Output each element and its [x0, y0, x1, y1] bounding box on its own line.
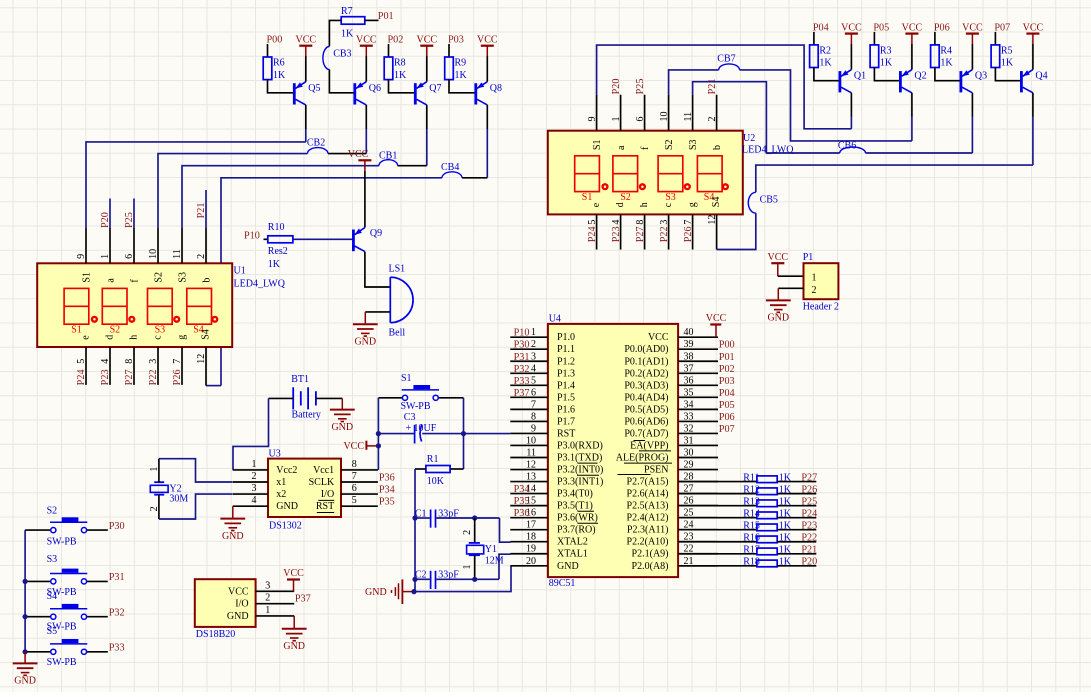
svg-text:31: 31: [684, 435, 694, 446]
svg-text:P26: P26: [683, 226, 694, 242]
svg-text:VCC: VCC: [841, 22, 862, 33]
svg-text:Q6: Q6: [369, 83, 381, 94]
svg-text:PSEN: PSEN: [644, 465, 668, 476]
wire Q8 collector: [486, 105, 488, 129]
wire R14 to net P24: [777, 517, 816, 519]
svg-text:7: 7: [531, 399, 536, 410]
svg-text:VCC: VCC: [768, 252, 789, 263]
resistor R2 1K: [810, 45, 819, 68]
transistor Q9: [352, 230, 355, 252]
svg-text:P0.3(AD3): P0.3(AD3): [624, 380, 668, 391]
svg-text:5: 5: [76, 359, 87, 364]
svg-text:S2: S2: [153, 272, 164, 283]
U2 top pin 2 (b): [716, 95, 718, 131]
svg-text:P31: P31: [514, 352, 530, 363]
U4 pin 39 P0.0(AD0): [678, 348, 718, 350]
svg-text:R3: R3: [880, 46, 892, 57]
U4 pin 32 P0.7(AD7): [678, 432, 718, 434]
svg-text:x2: x2: [276, 489, 286, 500]
svg-text:P25: P25: [635, 79, 646, 95]
svg-text:Battery: Battery: [292, 410, 321, 421]
wire R16 to net P22: [777, 541, 816, 543]
svg-text:P32: P32: [514, 364, 530, 375]
wire common ground column: [24, 530, 26, 652]
resistor R3 1K: [870, 45, 879, 68]
svg-text:1: 1: [100, 254, 111, 259]
svg-text:XTAL1: XTAL1: [557, 549, 588, 560]
U2 bottom pin 5 (e): [596, 214, 598, 249]
svg-text:S1: S1: [71, 325, 82, 336]
wire U4 pin 21 to R18: [678, 565, 757, 567]
svg-text:7: 7: [172, 359, 183, 364]
svg-text:P1: P1: [803, 252, 814, 263]
svg-text:a: a: [105, 278, 116, 283]
wire S1 right riser: [463, 398, 465, 469]
svg-text:P36: P36: [379, 472, 395, 483]
wire Q7 collector: [426, 105, 428, 129]
svg-text:P24: P24: [801, 508, 817, 519]
svg-text:P2.3(A11): P2.3(A11): [627, 525, 669, 536]
wire U4 pin 23 to R16: [678, 541, 757, 543]
wire row4 riser to CB4: [221, 178, 442, 386]
svg-text:29: 29: [684, 460, 694, 471]
svg-text:P3.7(RO): P3.7(RO): [557, 525, 596, 536]
U3 RST underline: [317, 512, 334, 514]
svg-text:e: e: [591, 202, 602, 207]
wire CB4 to Q8: [462, 177, 487, 179]
svg-text:P3.1(TXD): P3.1(TXD): [557, 453, 602, 464]
U4 pin 18 XTAL2: [510, 541, 548, 543]
U2 top pin 10 (S2): [668, 95, 670, 131]
wire R3 to Q2 base: [874, 68, 899, 81]
svg-text:7: 7: [683, 220, 694, 225]
svg-text:VCC: VCC: [706, 313, 727, 324]
U4 pin 27 P2.6(A14): [678, 493, 718, 495]
U2 top pin 6 (f): [644, 95, 646, 131]
svg-text:P03: P03: [448, 35, 464, 46]
U3 right pin 6 I/O: [341, 493, 378, 495]
svg-text:9: 9: [531, 423, 536, 434]
svg-text:Q8: Q8: [490, 83, 502, 94]
svg-text:P26: P26: [801, 484, 817, 495]
U2 bottom pin 4 (d): [620, 214, 622, 249]
svg-text:18: 18: [526, 532, 536, 543]
U1 bottom pin 12 (S4): [205, 347, 207, 386]
U4 active-low marks: [578, 462, 598, 464]
svg-text:P21: P21: [801, 545, 817, 556]
wire VCC to Q3 emitter: [971, 44, 973, 70]
svg-text:P25: P25: [124, 212, 135, 228]
svg-text:3: 3: [252, 483, 257, 494]
svg-text:11: 11: [683, 112, 694, 122]
ground GND at switch column: [24, 652, 26, 663]
wire Q4 collector down: [1032, 93, 1034, 117]
wire Q3 collector down: [971, 93, 973, 117]
svg-text:S4: S4: [47, 591, 58, 602]
junction dots on switch column: [23, 579, 28, 584]
svg-text:P1.2: P1.2: [557, 356, 575, 367]
svg-text:P06: P06: [719, 412, 735, 423]
svg-text:CB5: CB5: [760, 194, 778, 205]
svg-text:1: 1: [462, 565, 473, 570]
svg-text:a: a: [616, 145, 627, 150]
svg-text:S2: S2: [620, 192, 631, 203]
svg-text:8: 8: [124, 359, 135, 364]
svg-text:P26: P26: [172, 369, 183, 385]
svg-text:Header 2: Header 2: [803, 301, 839, 312]
wire U4 pin 22 to R17: [678, 553, 757, 555]
svg-text:Q7: Q7: [429, 83, 441, 94]
transistor Q6: [353, 83, 356, 104]
resistor R8 1K: [384, 57, 393, 80]
svg-text:P2.4(A12): P2.4(A12): [627, 513, 669, 524]
svg-text:39: 39: [684, 339, 694, 350]
U4 pin 40 VCC: [678, 336, 718, 338]
svg-text:P1.5: P1.5: [557, 392, 575, 403]
wire VCC to Q7 emitter: [426, 56, 428, 82]
svg-text:S2: S2: [664, 139, 675, 150]
svg-text:30: 30: [684, 448, 694, 459]
ground GND at U3 pin4: [232, 506, 234, 518]
svg-text:Vcc2: Vcc2: [276, 465, 297, 476]
svg-text:P07: P07: [719, 424, 735, 435]
svg-text:9: 9: [76, 254, 87, 259]
wire U4 pin 28 to R11: [678, 481, 757, 483]
U2 top pin 9 (S1): [596, 95, 598, 131]
svg-text:P35: P35: [514, 496, 530, 507]
svg-text:g: g: [176, 335, 187, 340]
svg-text:GND: GND: [331, 422, 353, 433]
wire ground row to U4 GND pin: [414, 566, 511, 592]
svg-text:DS18B20: DS18B20: [196, 629, 235, 640]
svg-text:P32: P32: [109, 608, 125, 619]
svg-text:S3: S3: [177, 272, 188, 283]
svg-text:ALE(PROG): ALE(PROG): [616, 453, 669, 464]
U4 pin 14 P3.4(T0): [510, 493, 548, 495]
svg-text:Q5: Q5: [308, 83, 320, 94]
svg-text:P34: P34: [379, 485, 395, 496]
svg-text:P1.7: P1.7: [557, 416, 575, 427]
U4 pin 11 P3.1(TXD): [510, 457, 548, 459]
svg-text:2: 2: [707, 117, 718, 122]
svg-text:Y1: Y1: [485, 544, 497, 555]
svg-text:Bell: Bell: [389, 328, 406, 339]
U1 top pin 2 (b): [205, 227, 207, 263]
wire C1 row: [415, 517, 430, 519]
svg-text:VCC: VCC: [283, 568, 304, 579]
svg-text:P23: P23: [611, 226, 622, 242]
svg-text:P22: P22: [801, 533, 817, 544]
svg-text:SCLK: SCLK: [309, 477, 335, 488]
U4 pin 17 P3.7(RO): [510, 529, 548, 531]
svg-text:13: 13: [526, 472, 536, 483]
wire VCC to Q9 emitter: [364, 171, 366, 228]
svg-text:P30: P30: [514, 340, 530, 351]
transistor Q2: [899, 71, 902, 92]
Y2 pin 2 wire to U3 x2: [158, 495, 160, 519]
U1 top pin 10 (S2): [157, 227, 159, 263]
svg-text:DS1302: DS1302: [269, 521, 302, 532]
svg-text:4: 4: [252, 495, 257, 506]
U4 pin 13 P3.3(INT1): [510, 481, 548, 483]
svg-text:GND: GND: [222, 531, 244, 542]
svg-text:P37: P37: [514, 388, 530, 399]
U1 top pin 1 (a): [109, 227, 111, 263]
wire S1 left riser: [377, 398, 379, 470]
wire R6 to Q5 base: [268, 80, 294, 93]
svg-text:5: 5: [352, 495, 357, 506]
U4 pin 3 P1.2: [510, 360, 548, 362]
U4 pin 10 P3.0(RXD): [510, 444, 548, 446]
svg-text:VCC: VCC: [348, 149, 369, 160]
svg-text:P04: P04: [813, 23, 829, 34]
wire R7 left down to CB3: [329, 20, 341, 46]
U1 bottom pin 3 (c): [157, 347, 159, 385]
svg-text:1K: 1K: [940, 58, 953, 69]
U4 pin 19 XTAL1: [510, 553, 548, 555]
svg-text:2: 2: [531, 339, 536, 350]
wire U2 pin11 to CB6 row: [693, 82, 840, 153]
svg-text:P0.7(AD7): P0.7(AD7): [624, 428, 668, 439]
wire VCC to Q8 emitter: [486, 56, 488, 82]
svg-text:RST: RST: [316, 501, 334, 512]
crystal Y1 12M: [474, 518, 476, 543]
svg-text:P2.5(A13): P2.5(A13): [627, 501, 669, 512]
ground GND at DS18B20: [293, 616, 295, 628]
wire CB1 to Q7: [398, 165, 427, 167]
svg-text:GND: GND: [365, 587, 387, 598]
svg-text:Vcc1: Vcc1: [313, 465, 334, 476]
svg-text:89C51: 89C51: [549, 578, 576, 589]
svg-text:CB6: CB6: [838, 140, 856, 151]
U1 top pin 11 (S3): [181, 227, 183, 263]
wire CB3 to Q6 base: [329, 70, 353, 93]
svg-text:3: 3: [531, 351, 536, 362]
svg-text:d: d: [104, 335, 115, 340]
svg-text:R4: R4: [940, 46, 952, 57]
svg-text:GND: GND: [276, 501, 298, 512]
svg-text:10UF: 10UF: [414, 423, 437, 434]
svg-text:P00: P00: [267, 35, 283, 46]
wire R2 to Q1 base: [814, 68, 839, 81]
svg-text:35: 35: [684, 387, 694, 398]
svg-text:1K: 1K: [819, 58, 832, 69]
wire VCC to Q2 emitter: [911, 44, 913, 70]
wire R13 to net P25: [777, 505, 816, 507]
wire row2 U1 pin10 to CB2: [158, 154, 307, 228]
svg-text:GND: GND: [227, 611, 249, 622]
svg-text:P0.0(AD0): P0.0(AD0): [624, 344, 668, 355]
svg-text:33: 33: [684, 411, 694, 422]
U4 pin 22 P2.1(A9): [678, 553, 718, 555]
svg-text:R8: R8: [394, 58, 406, 69]
wire CB2 to Q6: [328, 153, 366, 155]
svg-text:19: 19: [526, 544, 536, 555]
svg-text:S3: S3: [665, 192, 676, 203]
svg-text:R10: R10: [268, 222, 285, 233]
wire U1 pin12 to row4 riser: [206, 385, 221, 387]
svg-text:5: 5: [587, 220, 598, 225]
svg-text:P0.6(AD6): P0.6(AD6): [624, 416, 668, 427]
svg-text:1: 1: [611, 117, 622, 122]
U2 bottom pin 7 (g): [692, 214, 694, 249]
svg-text:VCC: VCC: [356, 35, 377, 46]
svg-text:P30: P30: [109, 521, 125, 532]
wire battery to U3 pin1: [269, 397, 294, 399]
svg-text:P10: P10: [244, 231, 260, 242]
wire R18 to net P20: [777, 565, 816, 567]
svg-text:P02: P02: [388, 35, 404, 46]
svg-text:P3.4(T0): P3.4(T0): [557, 489, 593, 500]
jumper CB5: [748, 192, 756, 213]
svg-text:SW-PB: SW-PB: [47, 536, 77, 547]
svg-text:S3: S3: [155, 325, 166, 336]
transistor Q8: [474, 83, 477, 104]
svg-text:P06: P06: [934, 23, 950, 34]
svg-text:40: 40: [684, 327, 694, 338]
transistor Q1: [839, 71, 842, 92]
svg-text:e: e: [80, 335, 91, 340]
svg-text:P03: P03: [719, 376, 735, 387]
svg-text:GND: GND: [14, 676, 36, 687]
svg-text:P24: P24: [587, 226, 598, 242]
U4 pin 30 ALE(PROG): [678, 457, 718, 459]
svg-text:b: b: [712, 145, 723, 150]
svg-text:S1: S1: [81, 272, 92, 283]
svg-text:Q1: Q1: [854, 71, 866, 82]
svg-text:20: 20: [526, 556, 536, 567]
svg-text:30M: 30M: [169, 494, 188, 505]
svg-text:U1: U1: [234, 266, 246, 277]
U4 pin 29 PSEN: [678, 469, 718, 471]
svg-text:P1.6: P1.6: [557, 404, 575, 415]
svg-text:5: 5: [531, 375, 536, 386]
U4 pin 31 EA(VPP): [678, 444, 718, 446]
svg-text:h: h: [639, 202, 650, 207]
jumper CB2: [307, 148, 328, 154]
U4 pin 24 P2.3(A11): [678, 529, 718, 531]
wire C2 row to XTAL1: [499, 554, 511, 579]
svg-text:7: 7: [352, 471, 357, 482]
svg-text:S1: S1: [582, 192, 593, 203]
U1 bottom pin 4 (d): [109, 347, 111, 385]
U1 top pin 6 (f): [133, 227, 135, 263]
svg-text:P23: P23: [801, 521, 817, 532]
U2 top pin 11 (S3): [692, 95, 694, 131]
svg-text:LS1: LS1: [389, 264, 406, 275]
svg-text:P20: P20: [801, 557, 817, 568]
svg-text:C3: C3: [404, 412, 416, 423]
U3 right pin 5 RST: [341, 505, 378, 507]
wire battery to ground: [316, 397, 342, 399]
svg-text:P21: P21: [196, 203, 207, 219]
wire bell to ground: [365, 311, 389, 313]
U4 pin 4 P1.3: [510, 372, 548, 374]
svg-text:x1: x1: [276, 477, 286, 488]
U4 pin 9 RST: [510, 432, 548, 434]
display U1 LED4_LWQ body: [37, 263, 232, 347]
jumper CB4: [442, 172, 462, 178]
svg-text:XTAL2: XTAL2: [557, 537, 588, 548]
svg-text:P3.3(INT1): P3.3(INT1): [557, 477, 603, 488]
U1 bottom pin 8 (h): [133, 347, 135, 385]
U1 digit segments: [64, 288, 89, 324]
svg-text:10K: 10K: [427, 476, 445, 487]
crystal Y2 30M: [154, 481, 164, 483]
svg-text:12: 12: [526, 460, 536, 471]
wire C3 row / RST net: [378, 433, 414, 435]
svg-text:P1.3: P1.3: [557, 368, 575, 379]
U3 left pin 3 x2: [233, 493, 268, 495]
svg-text:2: 2: [196, 254, 207, 259]
U1 pin1 stub wire with net label P20: [109, 199, 111, 228]
wire P03 to R9: [448, 44, 450, 57]
wire VCC to Q4 emitter: [1032, 44, 1034, 70]
svg-text:EA(VPP): EA(VPP): [630, 440, 668, 451]
wire R10 to Q9 base: [293, 238, 352, 240]
svg-text:P02: P02: [719, 364, 735, 375]
wire P10 to R10: [264, 238, 268, 240]
wire U4 pin 27 to R12: [678, 493, 757, 495]
svg-text:+: +: [406, 423, 412, 434]
U1 pin6 stub wire with net label P25: [133, 199, 135, 228]
wire R17 to net P21: [777, 553, 816, 555]
wire P06 to R4: [934, 32, 936, 45]
svg-text:P01: P01: [378, 11, 394, 22]
svg-text:CB7: CB7: [717, 53, 735, 64]
svg-text:P0.4(AD4): P0.4(AD4): [624, 392, 668, 403]
svg-text:P33: P33: [109, 643, 125, 654]
transistor Q5: [293, 83, 296, 104]
svg-text:P31: P31: [109, 572, 125, 583]
svg-text:10: 10: [659, 112, 670, 122]
wire S1 right riser to R1: [450, 468, 463, 470]
svg-text:1: 1: [149, 467, 160, 472]
display U2 LED4_LWQ body: [548, 131, 743, 215]
svg-text:P00: P00: [719, 340, 735, 351]
svg-text:10: 10: [148, 249, 159, 259]
svg-text:P04: P04: [719, 388, 735, 399]
svg-text:P07: P07: [994, 23, 1010, 34]
transistor Q4: [1020, 71, 1023, 92]
svg-text:GND: GND: [557, 561, 579, 572]
wire U4 pin 24 to R15: [678, 529, 757, 531]
svg-text:Res2: Res2: [268, 246, 288, 257]
svg-text:P1.1: P1.1: [557, 344, 575, 355]
svg-text:17: 17: [526, 520, 536, 531]
wire R8 to Q7 base: [389, 80, 415, 93]
svg-text:11: 11: [526, 448, 536, 459]
U4 pin 8 P1.7: [510, 420, 548, 422]
svg-text:c: c: [152, 335, 163, 340]
U3 left pin 1 Vcc2: [233, 469, 268, 471]
svg-text:RST: RST: [557, 428, 575, 439]
svg-text:6: 6: [531, 387, 536, 398]
svg-text:P3.0(RXD): P3.0(RXD): [557, 440, 603, 451]
svg-text:1: 1: [252, 459, 257, 470]
svg-text:1K: 1K: [1001, 58, 1014, 69]
svg-text:S1: S1: [401, 373, 412, 384]
transistor Q3: [960, 71, 963, 92]
svg-text:c: c: [663, 202, 674, 207]
svg-text:S1: S1: [592, 139, 603, 150]
wire P04 to R2: [813, 32, 815, 45]
svg-text:GND: GND: [283, 641, 305, 652]
svg-text:12: 12: [707, 215, 718, 225]
svg-text:h: h: [128, 335, 139, 340]
wire row1 U1 pin9 to Q5: [86, 142, 306, 227]
svg-text:CB2: CB2: [307, 138, 325, 149]
